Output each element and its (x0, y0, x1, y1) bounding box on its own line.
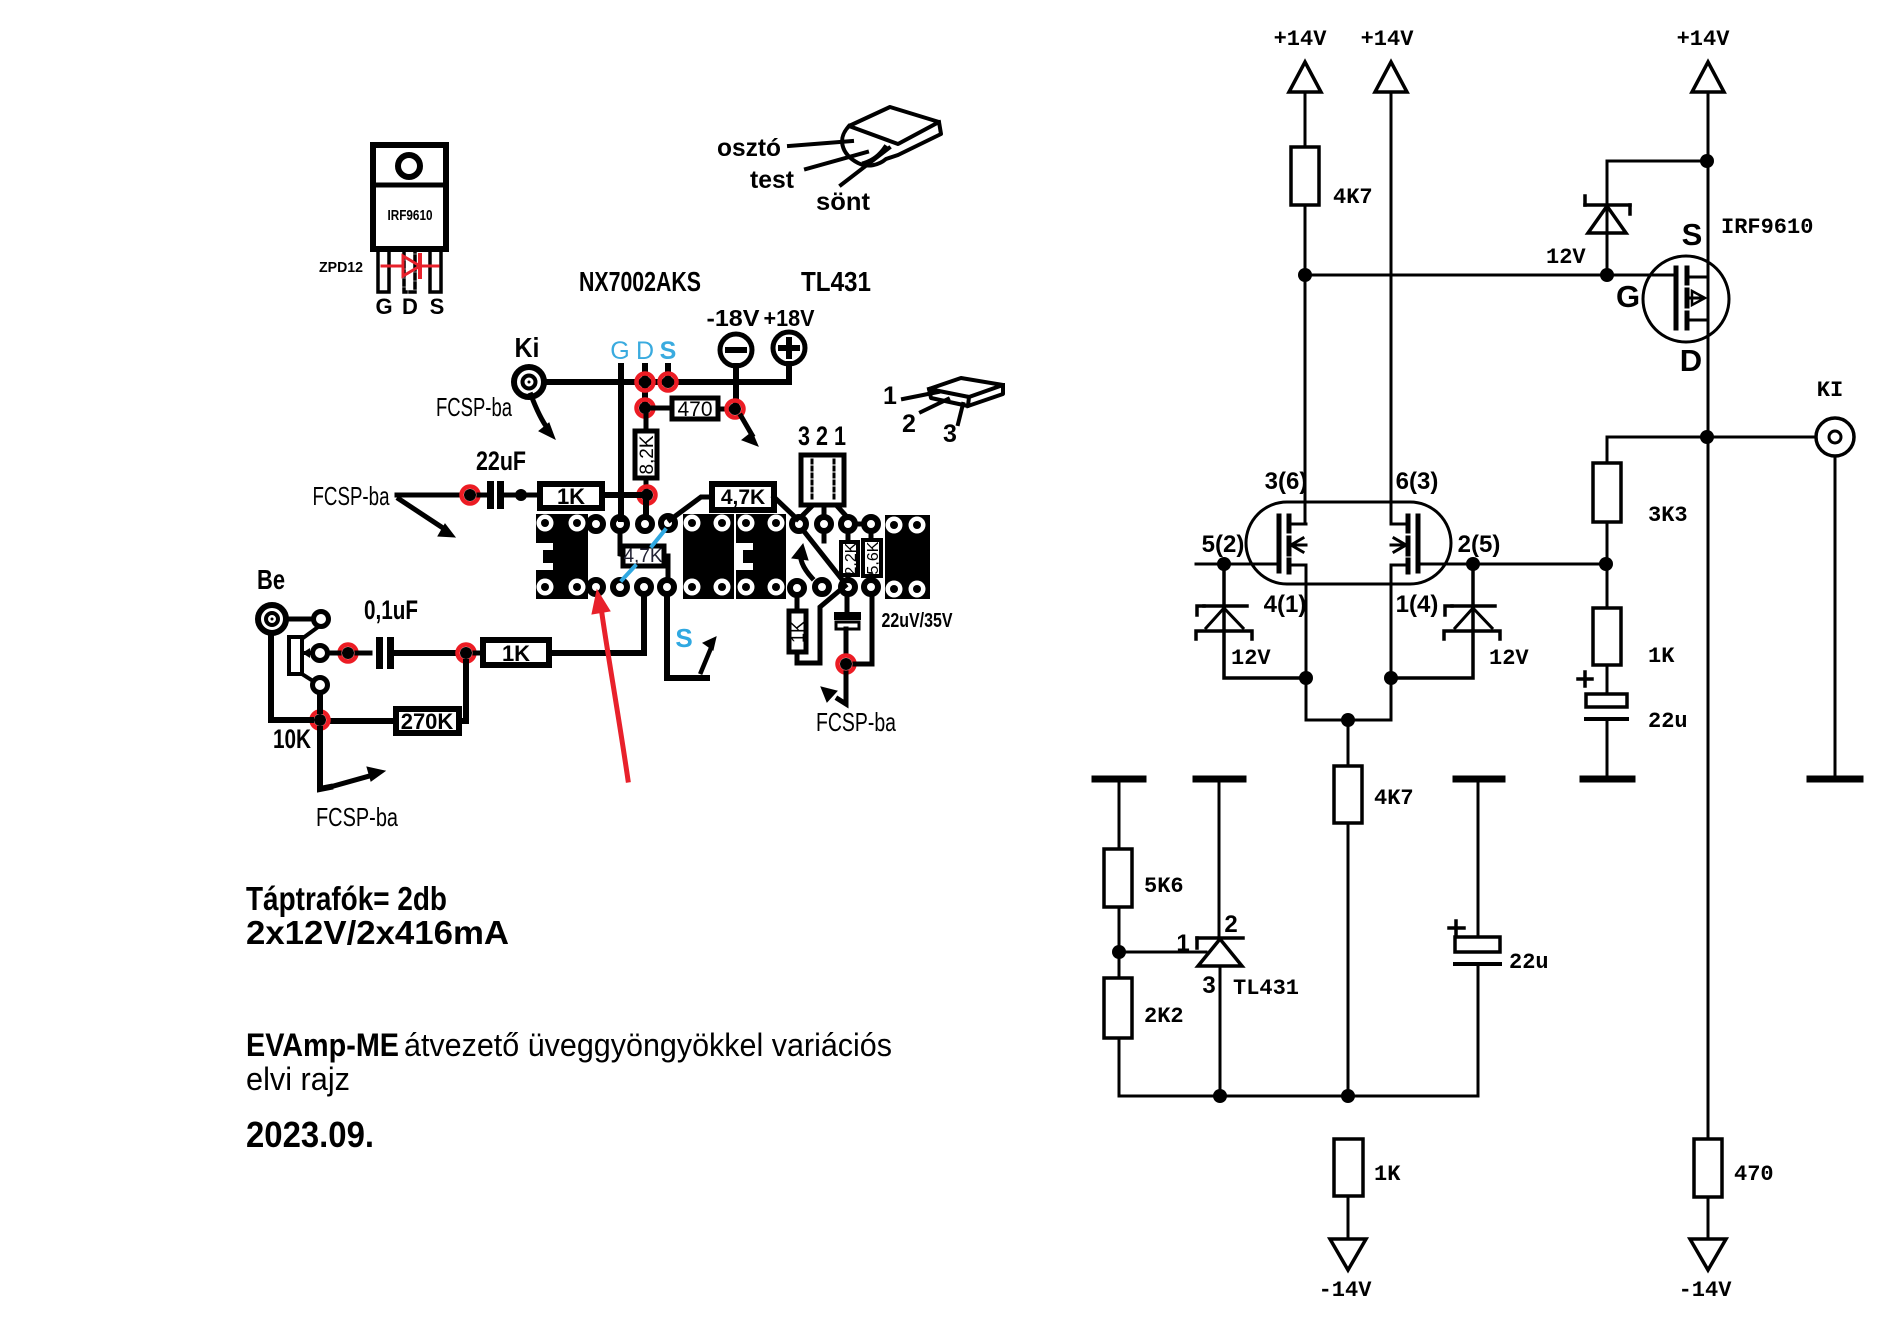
diode ZPD12 (red zener across legs) (382, 255, 438, 277)
resistor R 4K7 (upper) (1291, 147, 1373, 210)
label TL431 (801, 266, 871, 297)
resistor 8,2K (635, 414, 658, 488)
label S (blue) (675, 623, 692, 653)
label 1(4) (1396, 591, 1439, 618)
power +14V arrow 2 (1375, 62, 1407, 92)
SOT-23 3D sketch (osztó/test/sönt) (789, 107, 941, 185)
capacitor C 22u (TL431 side) (1449, 921, 1500, 1096)
ground bar KI (1810, 776, 1860, 783)
label KI (1817, 378, 1843, 403)
svg-text:470: 470 (1734, 1162, 1774, 1187)
power +14V arrow 3 (1692, 62, 1724, 92)
capacitor 0,1uF (376, 637, 455, 669)
wire D to KI jack (1714, 436, 1816, 439)
label NX7002AKS (579, 266, 701, 297)
power +14V label 2 (1361, 27, 1415, 52)
resistor 1K (input) (475, 640, 549, 666)
power -14V label (1K) (1319, 1278, 1373, 1303)
pad D (red) (637, 374, 654, 391)
label D (U1) (1680, 343, 1702, 378)
label G (U1) (1616, 279, 1640, 314)
svg-text:D: D (636, 337, 654, 365)
svg-text:NX7002AKS: NX7002AKS (579, 266, 701, 297)
diode Z1 12V (gate zener) (1585, 196, 1630, 233)
pad S (red) (660, 374, 677, 391)
transistor Q1 IRF9610 TO-220 package (373, 145, 446, 292)
svg-text:2,2K: 2,2K (843, 542, 860, 575)
power +14V label 1 (1274, 27, 1328, 52)
wire blue jumper (622, 530, 665, 580)
svg-text:-14V: -14V (1679, 1278, 1733, 1303)
label 22uF (476, 446, 526, 476)
svg-text:4,7K: 4,7K (623, 546, 662, 567)
wire 3K3 to 1K (1606, 522, 1609, 608)
arrow FCSP at 470 (741, 416, 758, 446)
svg-text:+14V: +14V (1361, 27, 1415, 52)
wire diagonal pad to pad (803, 530, 844, 582)
pads row top (589, 516, 878, 531)
svg-text:4,7K: 4,7K (721, 486, 765, 509)
wire 1K to cap (1606, 665, 1609, 694)
node junction 4K7 tail (1341, 1089, 1355, 1103)
ground bar 22u right (1583, 776, 1632, 783)
svg-text:2: 2 (902, 410, 916, 438)
label 4(1) (1264, 591, 1307, 618)
wire col1 down to oval (1304, 205, 1307, 524)
label FCSP-ba (22uF) (313, 481, 390, 511)
pad 470 right (red) (727, 401, 744, 418)
svg-text:12V: 12V (1489, 646, 1529, 671)
capacitor 22uF (479, 481, 517, 509)
potentiometer 10K (286, 612, 329, 693)
svg-text:1: 1 (1176, 930, 1189, 957)
svg-text:1: 1 (883, 382, 897, 410)
svg-text:EVAmp-MEátvezető üveggyöngyökk: EVAmp-MEátvezető üveggyöngyökkel variáci… (246, 1027, 892, 1063)
diode Z3 12V (right) (1398, 570, 1500, 678)
label FCSP-ba (10K) (316, 802, 398, 832)
svg-text:S: S (430, 294, 445, 319)
wires TL431 footprint pins (801, 507, 847, 517)
wire stub below pad2 (822, 532, 827, 541)
node junction 2(5) gate (1466, 557, 1480, 571)
connector Ki output jack (514, 367, 544, 397)
svg-text:IRF9610: IRF9610 (388, 207, 433, 224)
svg-text:Be: Be (257, 564, 285, 595)
label 12V (Z3) (1489, 646, 1529, 671)
resistor 4K7 (tail) (1334, 720, 1414, 1096)
svg-text:3(6): 3(6) (1265, 468, 1308, 495)
resistor 1K (right mid) (1593, 608, 1675, 669)
wire 5(2) stub (1196, 563, 1233, 566)
label S (U1) (1682, 217, 1703, 252)
transistor M2 (right NX7002) (1391, 516, 1464, 572)
wire junction to Be sleeve (271, 633, 320, 720)
svg-text:FCSP-ba: FCSP-ba (316, 802, 398, 832)
svg-text:TL431: TL431 (1233, 976, 1299, 1001)
wire KI down (1834, 456, 1837, 776)
resistor 470 (output) (1694, 1139, 1774, 1239)
sketch SOT23 pins 1 2 3 (903, 378, 1003, 424)
arrow red (592, 590, 628, 780)
resistor 1K (tail) (1334, 1139, 1401, 1239)
IC TL431 symbol (1197, 938, 1243, 1096)
label 22u (TL431 side) (1509, 950, 1549, 975)
svg-text:G: G (1616, 279, 1640, 314)
label 3(6) (1265, 468, 1308, 495)
socket D (885, 515, 930, 599)
label FCSP-ba (right) (816, 707, 896, 737)
resistor 5,6K (863, 532, 882, 580)
pad D2 (red) (637, 400, 654, 417)
svg-text:S: S (660, 337, 677, 365)
node junction ref divider (1112, 945, 1126, 959)
svg-text:4(1): 4(1) (1264, 591, 1307, 618)
wire ref to TL431 (1119, 951, 1206, 954)
wire Ki jack to +18V (544, 364, 789, 382)
wire source col right (1348, 565, 1391, 720)
svg-text:1K: 1K (788, 621, 808, 643)
svg-text:-14V: -14V (1319, 1278, 1373, 1303)
socket B (683, 514, 734, 599)
svg-text:12V: 12V (1231, 646, 1271, 671)
resistor 1K (vertical) (788, 586, 845, 663)
wire -18V stem (733, 366, 739, 402)
node junction TL431 anode (1213, 1089, 1227, 1103)
node -18V terminal (720, 334, 752, 366)
label 6(3) (1396, 468, 1439, 495)
pads row bottom (589, 580, 878, 595)
wire junction down + FCSP arrow (320, 729, 385, 789)
label -18V +18V (707, 305, 816, 331)
resistor 470 (651, 398, 728, 421)
text Táptrafók (246, 880, 509, 951)
pad 22uF left (red) (462, 487, 479, 504)
wire source col left (1306, 565, 1348, 720)
LEFT-HALF (246, 107, 1003, 1155)
svg-text:FCSP-ba: FCSP-ba (436, 392, 512, 422)
resistor 270K (331, 709, 459, 734)
node junction right source (1384, 671, 1398, 685)
svg-text:Ki: Ki (515, 332, 540, 363)
resistor 5K6 (1104, 849, 1184, 946)
label 22u (right) (1648, 709, 1688, 734)
label Ki (515, 332, 540, 363)
pad 0,1uF right (red) (458, 645, 475, 662)
wire pad right branch (855, 596, 872, 664)
svg-text:+14V: +14V (1677, 27, 1731, 52)
wire +14V col2 (1390, 92, 1393, 524)
node +18V terminal (773, 332, 805, 364)
svg-text:0,1uF: 0,1uF (364, 595, 418, 625)
svg-text:5,6K: 5,6K (865, 541, 882, 574)
svg-text:2(5): 2(5) (1458, 531, 1501, 558)
node junction 5(2) (1217, 557, 1231, 571)
node junction sources merge (1341, 713, 1355, 727)
svg-text:22uF: 22uF (476, 446, 526, 476)
svg-text:1K: 1K (557, 484, 585, 509)
supply bar 1 (1095, 779, 1143, 849)
transistor M1 (left NX7002) (1233, 516, 1306, 572)
label 3 2 1 (798, 421, 846, 451)
power -14V label (470) (1679, 1278, 1733, 1303)
svg-text:-18V: -18V (707, 305, 761, 331)
text 2023.09. (246, 1114, 374, 1155)
socket C (736, 514, 786, 599)
svg-text:3K3: 3K3 (1648, 503, 1688, 528)
label pin 3 (1202, 972, 1215, 999)
wire bottom bus (1119, 1095, 1478, 1098)
text EVAmp-ME title (246, 1027, 892, 1097)
svg-text:D: D (402, 294, 418, 319)
arrow FCSP 22uF (399, 499, 455, 537)
power -14V arrow (1K) (1330, 1239, 1366, 1270)
IC NX7002AKS dual-mosfet outline (1246, 502, 1451, 584)
svg-text:3: 3 (943, 420, 957, 448)
svg-text:KI: KI (1817, 378, 1843, 403)
resistor 2K2 (1104, 958, 1184, 1096)
label G D S (blue) (610, 337, 676, 365)
svg-text:2: 2 (1224, 911, 1237, 938)
svg-text:22u: 22u (1648, 709, 1688, 734)
wire G bus (1305, 274, 1676, 277)
svg-text:osztó: osztó (717, 134, 781, 162)
capacitor C 22u (right) (1578, 672, 1627, 776)
label 0,1uF (364, 595, 418, 625)
node junction zener/G (1600, 268, 1614, 282)
resistor 2,2K (841, 532, 860, 580)
label Be (257, 564, 285, 595)
arrow curved at pads (792, 544, 812, 578)
wire D to 3K3 (1607, 437, 1700, 463)
node junction D/KI (1700, 430, 1714, 444)
pad 8,2K bottom (red) (639, 487, 656, 504)
wire 0,1uF node down to 270K (459, 662, 466, 721)
connector Be input jack (258, 605, 286, 633)
node junction dot (515, 489, 527, 501)
svg-text:22u: 22u (1509, 950, 1549, 975)
svg-text:5(2): 5(2) (1202, 531, 1245, 558)
resistor 1K (upper) (527, 484, 640, 509)
svg-text:1K: 1K (502, 641, 530, 666)
svg-text:4K7: 4K7 (1333, 185, 1373, 210)
svg-text:test: test (750, 166, 795, 194)
svg-text:1K: 1K (1374, 1162, 1401, 1187)
power -14V arrow (470) (1690, 1239, 1726, 1270)
wire zener top link (1607, 161, 1707, 269)
capacitor 22uF/35V (834, 595, 861, 655)
supply bar 2 (1196, 779, 1243, 937)
svg-text:5K6: 5K6 (1144, 874, 1184, 899)
wire D stub (642, 366, 648, 404)
pin labels G D S of Q1 (375, 294, 444, 319)
resistor 4,7K (top) (670, 484, 797, 520)
label FCSP-ba (Ki) (436, 392, 512, 422)
svg-text:+14V: +14V (1274, 27, 1328, 52)
wire S pad down (667, 595, 707, 678)
connector KI jack (1816, 418, 1854, 456)
wire S/D column (1707, 92, 1710, 1139)
svg-text:+18V: +18V (764, 305, 816, 331)
svg-text:FCSP-ba: FCSP-ba (313, 481, 390, 511)
power +14V label 3 (1677, 27, 1731, 52)
svg-text:3: 3 (1202, 972, 1215, 999)
svg-text:TL431: TL431 (801, 266, 871, 297)
svg-text:G: G (375, 294, 392, 319)
node junction 2(5) bus (1599, 557, 1613, 571)
arrow S (701, 637, 716, 672)
svg-text:D: D (1680, 343, 1702, 378)
svg-text:2x12V/2x416mA: 2x12V/2x416mA (246, 914, 509, 951)
wire +14V col1 top (1304, 92, 1307, 147)
svg-text:1K: 1K (1648, 644, 1675, 669)
label pin 2 (1224, 911, 1237, 938)
wire FCSP to pad (397, 493, 459, 498)
wire wiper to pad (328, 651, 370, 656)
TL431 footprint (801, 455, 844, 505)
supply bar 3 (1456, 779, 1502, 937)
resistor 3K3 (1593, 463, 1688, 528)
label 10K (273, 724, 311, 754)
label pin 1 (1176, 930, 1189, 957)
svg-text:S: S (1682, 217, 1703, 252)
label 2(5) (1458, 531, 1501, 558)
pad ground junction (red) (312, 712, 329, 729)
svg-text:elvi rajz: elvi rajz (246, 1061, 350, 1097)
label 12V (Z1) (1546, 245, 1586, 270)
pad pot wiper (red) (340, 645, 357, 662)
wire 2(5) bus (1464, 563, 1600, 566)
svg-text:270K: 270K (401, 709, 454, 734)
label 5(2) (1202, 531, 1245, 558)
svg-text:IRF9610: IRF9610 (1721, 215, 1813, 240)
svg-text:2K2: 2K2 (1144, 1004, 1184, 1029)
svg-text:10K: 10K (273, 724, 311, 754)
wire G column (618, 366, 624, 519)
power +14V arrow 1 (1289, 62, 1321, 92)
svg-text:470: 470 (677, 398, 712, 421)
wire 1K to pad row (549, 596, 644, 653)
node junction left source (1299, 671, 1313, 685)
pad 22uF35 (red) (838, 656, 855, 673)
svg-text:S: S (675, 623, 692, 653)
label IRF9610 (1721, 215, 1813, 240)
wire pad down + arrow (821, 673, 846, 704)
socket A (536, 514, 588, 599)
svg-text:12V: 12V (1546, 245, 1586, 270)
wire S stub (665, 366, 671, 378)
resistor 4,7K (jumper) (620, 533, 668, 578)
svg-text:3 2 1: 3 2 1 (798, 421, 846, 451)
node junction col1/G (1298, 268, 1312, 282)
label TL431 (1233, 976, 1299, 1001)
svg-text:22uV/35V: 22uV/35V (882, 610, 954, 632)
svg-text:1(4): 1(4) (1396, 591, 1439, 618)
label 12V (Z2) (1231, 646, 1271, 671)
svg-text:8,2K: 8,2K (637, 435, 658, 474)
transistor U1 IRF9610 symbol (1643, 256, 1729, 342)
svg-text:6(3): 6(3) (1396, 468, 1439, 495)
svg-text:sönt: sönt (816, 188, 871, 216)
RIGHT-HALF (1095, 27, 1860, 1303)
svg-text:Táptrafók= 2db: Táptrafók= 2db (246, 880, 447, 917)
svg-text:4K7: 4K7 (1374, 786, 1414, 811)
diode Z2 12V (left) (1196, 570, 1299, 678)
svg-text:FCSP-ba: FCSP-ba (816, 707, 896, 737)
wire pads link (855, 522, 864, 527)
wire pad to row (643, 502, 649, 517)
svg-text:ZPD12: ZPD12 (319, 259, 363, 276)
svg-text:G: G (610, 337, 629, 365)
arrow from Ki jack (531, 395, 555, 439)
node junction S column (1700, 154, 1714, 168)
label 22uV/35V (882, 610, 954, 632)
svg-text:2023.09.: 2023.09. (246, 1114, 374, 1155)
